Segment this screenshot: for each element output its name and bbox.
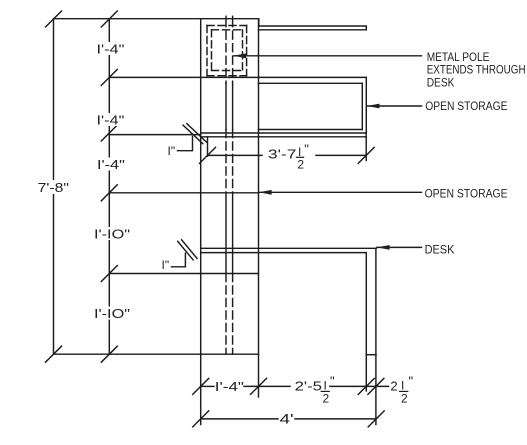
- arrowhead open storage 2: [259, 190, 272, 195]
- metal pole right edge visible row 3: [232, 193, 234, 274]
- svg-text:I'-4": I'-4": [97, 157, 125, 172]
- extension below floor at column right: [258, 354, 260, 397]
- metal pole left edge hidden bottom: [225, 274, 227, 355]
- one inch callout bracket at desk: [172, 253, 186, 267]
- extension line right of 3'-7 1/2 dim: [365, 133, 367, 161]
- svg-text:I": I": [168, 144, 176, 158]
- metal pole right edge visible in storage 1: [232, 83, 234, 129]
- open storage 1 outer right wall: [365, 77, 367, 133]
- bottom dimension chain line: [244, 385, 290, 387]
- floor line: [54, 353, 259, 355]
- break mark at shelf 2 second: [187, 124, 207, 143]
- extension below floor at desk panel inner: [365, 355, 367, 391]
- tick: [101, 125, 117, 141]
- row line shelf 4: [109, 273, 258, 275]
- svg-text:4': 4': [280, 412, 294, 427]
- dimension line 4 foot: [201, 418, 278, 420]
- tick: [358, 147, 374, 163]
- extension line left of 3'-7 1/2 dim: [207, 137, 209, 156]
- label 1'-10" row4: [93, 227, 132, 240]
- label 1'-4" row3: [96, 158, 127, 171]
- svg-text:2: 2: [297, 158, 304, 172]
- break mark at shelf 2: [183, 125, 203, 144]
- open storage 1 inner top: [259, 82, 363, 84]
- leader line open storage 2: [259, 191, 422, 193]
- pole bracket outer dashed bottom: [207, 75, 247, 77]
- tick: [368, 378, 384, 394]
- arrowhead desk: [377, 245, 390, 250]
- svg-text:2'-5: 2'-5: [295, 379, 322, 394]
- dimension line overall 7'-8" (left): [53, 19, 55, 354]
- tick: [193, 411, 209, 427]
- tick: [358, 378, 374, 394]
- break mark at desk: [178, 241, 193, 260]
- column left panel: [200, 19, 202, 355]
- pole bracket inner dashed left: [211, 30, 213, 71]
- top line of unit: [54, 19, 259, 26]
- tick: [46, 11, 62, 27]
- label 1'-10" row5: [93, 307, 132, 320]
- metal pole right edge hidden mid: [232, 130, 234, 193]
- shelf 2 row extension: [109, 134, 200, 136]
- svg-text:I: I: [324, 378, 327, 392]
- extension below floor at desk panel outer: [375, 355, 377, 425]
- metal pole left edge hidden top: [225, 19, 227, 84]
- row line shelf 1: [109, 76, 366, 78]
- tick: [200, 147, 216, 163]
- metal pole right edge hidden top: [232, 19, 234, 84]
- pole bracket inner dashed right: [242, 30, 244, 71]
- svg-text:3'-7: 3'-7: [268, 147, 297, 162]
- svg-text:EXTENDS THROUGH: EXTENDS THROUGH: [427, 65, 526, 77]
- svg-text:I'-4": I'-4": [97, 113, 125, 128]
- dimension line segments (second vertical): [108, 19, 110, 354]
- metal pole left edge visible in storage 1: [225, 83, 227, 129]
- desk right support panel base: [366, 354, 376, 356]
- svg-text:I'-IO": I'-IO": [94, 306, 130, 321]
- row line shelf 3: [109, 192, 258, 194]
- desk right support panel outer: [375, 248, 377, 355]
- tick: [46, 346, 62, 362]
- metal pole stub above top left: [225, 16, 227, 18]
- tick: [101, 346, 117, 362]
- svg-text:I'-IO": I'-IO": [94, 227, 130, 242]
- svg-text:OPEN STORAGE: OPEN STORAGE: [425, 188, 508, 200]
- svg-text:2: 2: [323, 392, 330, 406]
- leader line desk: [377, 246, 422, 248]
- column right panel: [258, 19, 260, 355]
- bottom dimension chain line: [201, 385, 214, 387]
- label 1'-4" row2: [95, 113, 126, 126]
- tick: [368, 411, 384, 427]
- svg-text:DESK: DESK: [427, 77, 455, 89]
- pole bracket inner dashed top: [212, 29, 243, 31]
- desk top surface: [201, 247, 377, 249]
- metal pole stub above top right: [232, 16, 234, 18]
- metal pole left edge visible row 3: [225, 193, 227, 274]
- tick: [101, 266, 117, 282]
- svg-text:2: 2: [390, 379, 397, 394]
- tick: [101, 185, 117, 201]
- tick: [101, 11, 117, 27]
- svg-text:": ": [304, 142, 309, 157]
- arrowhead open storage 1: [367, 104, 380, 109]
- tick: [193, 378, 209, 394]
- bottom dimension chain line: [330, 385, 389, 387]
- svg-text:": ": [409, 374, 414, 389]
- tick: [101, 69, 117, 85]
- metal pole left edge hidden mid: [225, 130, 227, 193]
- leader line open storage 1: [367, 105, 422, 107]
- svg-text:I'-4": I'-4": [215, 379, 245, 394]
- top rail bar: [259, 26, 367, 30]
- svg-text:DESK: DESK: [425, 245, 455, 257]
- svg-text:": ": [330, 374, 335, 389]
- svg-text:OPEN STORAGE: OPEN STORAGE: [425, 101, 508, 113]
- pole bracket outer dashed top: [207, 25, 247, 27]
- pole bracket outer dashed right: [246, 26, 248, 76]
- arrowhead metal pole: [233, 53, 246, 58]
- svg-text:7'-8": 7'-8": [38, 180, 70, 195]
- desk top underside: [201, 252, 367, 254]
- label 7'-8": [37, 180, 70, 194]
- extension below floor at column left: [200, 354, 202, 424]
- dimension line 3'-7 1/2 right part: [316, 154, 366, 156]
- svg-text:2: 2: [401, 392, 408, 406]
- svg-text:I": I": [162, 258, 170, 272]
- open storage 1 inner bottom: [259, 129, 363, 131]
- tick: [251, 378, 267, 394]
- svg-text:I: I: [401, 378, 404, 392]
- one inch callout bracket at shelf 2: [178, 137, 193, 151]
- label 1'-4" row1: [95, 42, 126, 55]
- dimension line 3'-7 1/2 left part: [208, 154, 263, 156]
- pole bracket outer dashed left: [206, 26, 208, 76]
- metal pole right edge hidden bottom: [232, 274, 234, 355]
- break mark at desk second: [182, 240, 197, 259]
- svg-text:I'-4": I'-4": [97, 42, 125, 57]
- leader line metal pole: [233, 55, 421, 57]
- shelf 2 bottom line: [201, 136, 367, 138]
- desk right support panel inner: [365, 253, 367, 355]
- pole bracket inner dashed bottom: [212, 70, 243, 72]
- open storage 1 inner right wall: [361, 83, 363, 129]
- dimension line 4 foot right part: [295, 418, 376, 420]
- svg-text:METAL POLE: METAL POLE: [427, 52, 490, 64]
- shelf 2 top line: [201, 132, 367, 134]
